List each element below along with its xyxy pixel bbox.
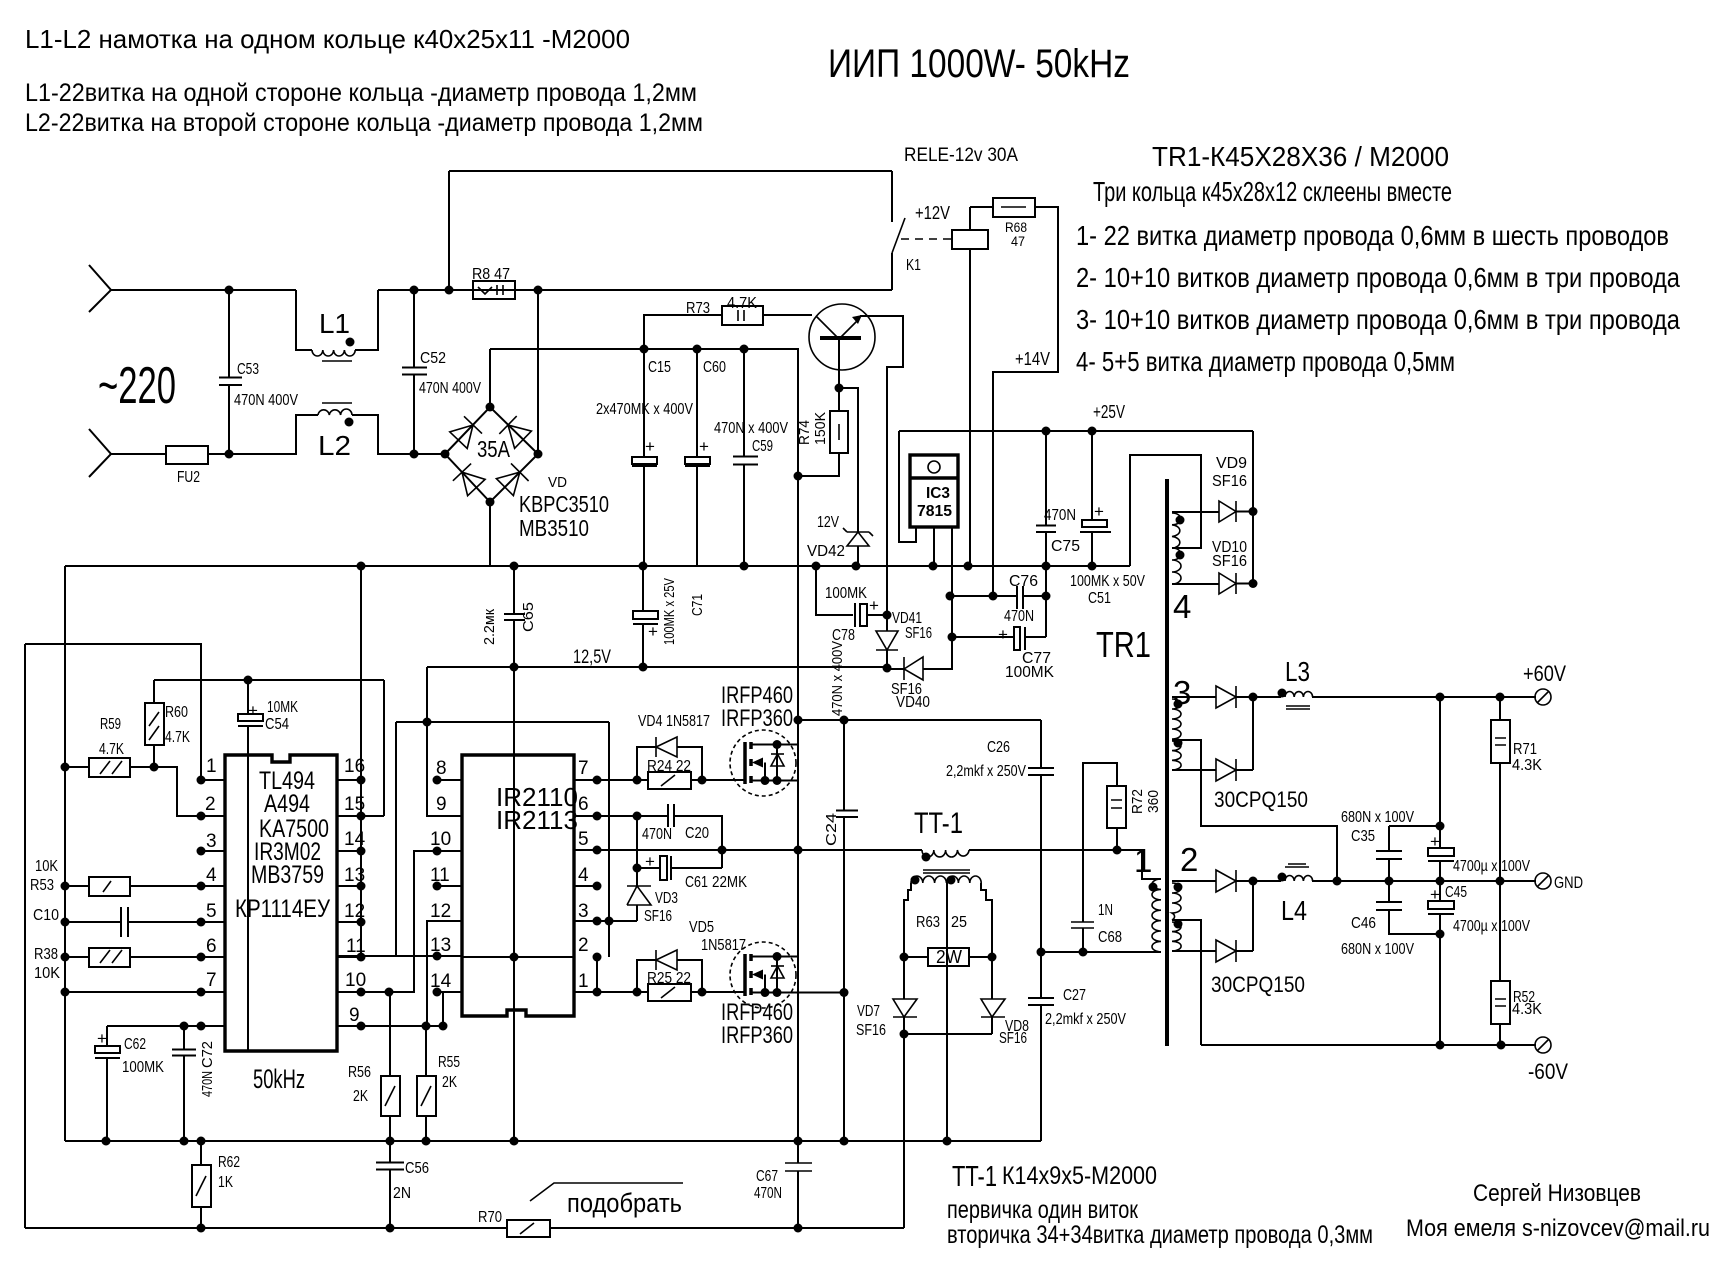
svg-text:R73: R73 bbox=[686, 300, 710, 317]
wire pin3 VCC row bbox=[574, 722, 637, 957]
wire GND rail dots bbox=[1333, 877, 1342, 886]
svg-text:2K: 2K bbox=[442, 1074, 457, 1091]
svg-text:7815: 7815 bbox=[917, 503, 952, 520]
wire +60V rail dots bbox=[1436, 693, 1445, 702]
svg-text:10: 10 bbox=[430, 829, 451, 850]
resistor R70 bbox=[507, 1220, 550, 1237]
svg-text:+: + bbox=[645, 852, 655, 871]
capacitor C45 lower bbox=[1439, 881, 1441, 934]
svg-text:30CPQ150: 30CPQ150 bbox=[1211, 972, 1305, 997]
svg-text:C51: C51 bbox=[1088, 590, 1111, 607]
capacitor C71 bbox=[642, 566, 644, 667]
svg-text:1K: 1K bbox=[218, 1174, 233, 1191]
diode VD9 bbox=[1219, 501, 1236, 522]
resistor R55 bbox=[425, 1026, 427, 1141]
capacitor C75 bbox=[1036, 431, 1056, 596]
resistor R25 bbox=[648, 984, 691, 1001]
resistor R68 bbox=[993, 198, 1035, 217]
svg-text:C76: C76 bbox=[1009, 573, 1038, 590]
capacitor C56 bbox=[376, 1141, 404, 1228]
svg-text:SF16: SF16 bbox=[905, 625, 932, 642]
capacitor C15 bbox=[643, 349, 645, 566]
svg-text:+: + bbox=[699, 437, 709, 456]
node input-arrow-top bbox=[89, 265, 111, 312]
svg-text:C59: C59 bbox=[752, 438, 773, 455]
svg-text:A494: A494 bbox=[264, 790, 310, 818]
svg-text:+: + bbox=[1430, 885, 1440, 904]
wire pin1 pin2 stubs bbox=[201, 780, 225, 851]
svg-text:+: + bbox=[645, 437, 655, 456]
svg-text:4.3K: 4.3K bbox=[1512, 757, 1542, 774]
svg-text:2,2mkf x 250V: 2,2mkf x 250V bbox=[1045, 1011, 1126, 1028]
svg-text:C72: C72 bbox=[199, 1041, 216, 1068]
svg-text:2x470MK x 400V: 2x470MK x 400V bbox=[596, 401, 693, 418]
svg-text:470N 400V: 470N 400V bbox=[234, 392, 298, 409]
wire pin12 row LIN bbox=[427, 921, 462, 1026]
svg-text:R53: R53 bbox=[30, 877, 54, 894]
svg-text:30CPQ150: 30CPQ150 bbox=[1214, 787, 1308, 812]
svg-text:КР1114ЕУ: КР1114ЕУ bbox=[235, 895, 330, 923]
svg-text:C67: C67 bbox=[756, 1168, 778, 1185]
OUTPUT bbox=[1201, 661, 1583, 1084]
wire 12.5V drop to VDD bbox=[396, 667, 609, 816]
resistor R53 pin4 bbox=[65, 885, 225, 887]
svg-text:3: 3 bbox=[578, 901, 589, 922]
svg-text:4.7K: 4.7K bbox=[165, 729, 190, 746]
wire 25V from rectifier bbox=[1252, 431, 1254, 584]
svg-text:TT-1: TT-1 bbox=[952, 1161, 997, 1193]
diode VD40 bbox=[923, 637, 952, 669]
capacitor C60 bbox=[696, 349, 698, 566]
svg-text:-60V: -60V bbox=[1528, 1059, 1568, 1084]
wire pin8 row bbox=[107, 1025, 225, 1027]
svg-text:1: 1 bbox=[1134, 842, 1152, 879]
capacitor C59 bbox=[733, 349, 758, 566]
svg-text:C15: C15 bbox=[648, 359, 671, 376]
RAIL125 bbox=[427, 566, 887, 672]
wire primary bottom bbox=[1041, 850, 1158, 952]
callout подобрать bbox=[530, 1183, 683, 1201]
capacitor C45 upper bbox=[1439, 697, 1441, 881]
svg-text:Моя емеля s-nizovcev@mail.ru: Моя емеля s-nizovcev@mail.ru bbox=[1406, 1215, 1710, 1242]
resistor R56 bbox=[389, 992, 391, 1141]
wire relay coil feed bbox=[970, 207, 993, 566]
svg-text:вторичка 34+34витка диаметр пр: вторичка 34+34витка диаметр провода 0,3м… bbox=[947, 1221, 1373, 1249]
svg-text:680N x 100V: 680N x 100V bbox=[1341, 941, 1414, 958]
wire midpoint dot bbox=[794, 716, 803, 725]
svg-text:L1: L1 bbox=[319, 308, 350, 339]
svg-text:4: 4 bbox=[578, 865, 589, 886]
svg-text:R72: R72 bbox=[1129, 789, 1146, 814]
svg-text:150K: 150K bbox=[812, 412, 829, 445]
svg-text:22MK: 22MK bbox=[712, 874, 747, 891]
svg-text:470N: 470N bbox=[1004, 608, 1034, 625]
resistor R72 bbox=[1083, 763, 1117, 952]
resistor R62 bbox=[200, 1141, 202, 1228]
wire bridge plus bbox=[490, 290, 538, 566]
wire pin11 stub bbox=[437, 885, 462, 887]
svg-text:470N: 470N bbox=[754, 1185, 782, 1202]
svg-text:C35: C35 bbox=[1351, 828, 1375, 845]
svg-text:VD4 1N5817: VD4 1N5817 bbox=[638, 713, 710, 730]
capacitor C68 bbox=[1071, 922, 1094, 928]
svg-text:10MK: 10MK bbox=[267, 699, 298, 716]
svg-text:C46: C46 bbox=[1351, 915, 1376, 932]
svg-text:VD3: VD3 bbox=[655, 890, 678, 907]
svg-text:2W: 2W bbox=[936, 947, 962, 967]
capacitor C76 bbox=[1017, 586, 1023, 609]
svg-text:14: 14 bbox=[430, 971, 452, 992]
capacitor C61 bbox=[637, 867, 722, 869]
capacitor C65 bbox=[504, 566, 525, 667]
svg-text:R70: R70 bbox=[478, 1209, 502, 1226]
wire pin8 stub bbox=[437, 779, 462, 781]
wire relay top link bbox=[449, 171, 892, 290]
svg-text:C52: C52 bbox=[420, 350, 446, 367]
diode 30CPQ150 c bbox=[1216, 870, 1236, 892]
svg-text:VD40: VD40 bbox=[896, 694, 930, 711]
wire -60V rail bbox=[1201, 1044, 1536, 1046]
svg-text:5: 5 bbox=[206, 901, 217, 922]
svg-text:+14V: +14V bbox=[1015, 349, 1050, 369]
svg-text:C65: C65 bbox=[520, 602, 537, 632]
resistor R52 bbox=[1499, 881, 1501, 1045]
svg-text:Сергей Низовцев: Сергей Низовцев bbox=[1473, 1180, 1641, 1207]
svg-text:R56: R56 bbox=[348, 1064, 371, 1081]
wire pin11 row to IR2110 pin13 bbox=[337, 722, 462, 956]
svg-text:4- 5+5 витка диаметр провода 0: 4- 5+5 витка диаметр провода 0,5мм bbox=[1076, 346, 1455, 377]
svg-text:R62: R62 bbox=[218, 1154, 240, 1171]
wire 12.5V rail bbox=[427, 666, 887, 668]
wire pin4 stub bbox=[574, 885, 597, 887]
wire L2 lower AC line bbox=[229, 415, 445, 454]
svg-text:VD42: VD42 bbox=[807, 543, 845, 560]
winding 1 primary bbox=[1152, 879, 1161, 952]
svg-text:7: 7 bbox=[578, 758, 589, 779]
capacitor C52 bbox=[402, 290, 427, 454]
svg-text:5: 5 bbox=[578, 829, 589, 850]
diode 30CPQ150 b bbox=[1216, 759, 1236, 781]
switch K1 bbox=[892, 218, 905, 253]
svg-text:470N x 400V: 470N x 400V bbox=[714, 420, 788, 437]
wire pin5 VS midpoint row bbox=[574, 849, 918, 851]
svg-text:R25 22: R25 22 bbox=[647, 970, 691, 987]
svg-text:IRFP360: IRFP360 bbox=[721, 1022, 793, 1049]
svg-text:FU2: FU2 bbox=[177, 469, 200, 486]
svg-text:100MK x 25V: 100MK x 25V bbox=[661, 578, 678, 645]
svg-text:360: 360 bbox=[1145, 790, 1162, 813]
wire R68 right to +14V bbox=[993, 207, 1058, 596]
HVRAIL bbox=[490, 295, 903, 1228]
svg-text:SF16: SF16 bbox=[644, 908, 672, 925]
svg-text:RELE-12v 30A: RELE-12v 30A bbox=[904, 145, 1018, 166]
svg-text:первичка один виток: первичка один виток bbox=[947, 1196, 1139, 1224]
svg-text:VD9: VD9 bbox=[1216, 455, 1247, 472]
zener VD42 bbox=[839, 388, 858, 566]
wire 14V node bbox=[950, 596, 1046, 637]
transformer TR1 core bbox=[1165, 479, 1169, 1046]
svg-text:R59: R59 bbox=[100, 716, 121, 733]
wire pin10 row bbox=[337, 851, 462, 992]
svg-text:ИИП 1000W- 50kHz: ИИП 1000W- 50kHz bbox=[828, 42, 1130, 86]
capacitor C35 bbox=[1376, 826, 1440, 881]
resistor R38 pin6 bbox=[65, 956, 225, 958]
svg-text:6: 6 bbox=[206, 936, 217, 957]
svg-text:MB3759: MB3759 bbox=[251, 861, 324, 889]
resistor R24 bbox=[648, 772, 691, 789]
AUXSUPPLY bbox=[816, 402, 1253, 711]
wire +25V rail bbox=[899, 430, 1253, 432]
svg-text:R38: R38 bbox=[34, 946, 58, 963]
capacitor C24 bbox=[798, 720, 858, 1141]
wire C24 gnd join bbox=[840, 988, 849, 997]
diode VD7 bbox=[903, 957, 905, 1034]
svg-text:R63: R63 bbox=[916, 914, 940, 931]
diode VD41 bbox=[886, 615, 888, 668]
capacitor C20 bbox=[668, 804, 674, 827]
svg-text:2N: 2N bbox=[393, 1185, 411, 1202]
TL494 bbox=[25, 566, 609, 1228]
svg-text:C10: C10 bbox=[33, 907, 59, 924]
terminal +60V bbox=[1535, 689, 1551, 705]
svg-text:VD: VD bbox=[548, 474, 567, 491]
transistor Q1 regulator bbox=[809, 304, 875, 370]
wire top AC line bbox=[111, 289, 892, 291]
capacitor C62 bbox=[106, 1026, 108, 1141]
svg-text:4.7K: 4.7K bbox=[727, 295, 757, 312]
wire pin7 bbox=[65, 991, 225, 993]
regulator IC3 7815 bbox=[899, 431, 952, 669]
svg-text:IRFP360: IRFP360 bbox=[721, 705, 793, 732]
capacitor C26 bbox=[1028, 720, 1054, 952]
svg-text:KBPC3510: KBPC3510 bbox=[519, 491, 609, 517]
relay coil K1 bbox=[901, 238, 951, 240]
capacitor C72 bbox=[172, 1026, 196, 1141]
diode VD5 bbox=[637, 960, 702, 992]
GNDRAIL566 bbox=[65, 562, 1130, 571]
svg-text:2,2mkf x 250V: 2,2mkf x 250V bbox=[946, 763, 1026, 780]
wire VD7 VD8 bottom bbox=[904, 1034, 992, 1228]
BOTTOMRAILS bbox=[25, 1137, 1041, 1238]
diode 30CPQ150 a bbox=[1216, 686, 1236, 708]
svg-text:2- 10+10 витков диаметр провод: 2- 10+10 витков диаметр провода 0,6мм в … bbox=[1076, 262, 1680, 293]
resistor R73 bbox=[644, 315, 812, 349]
svg-text:L4: L4 bbox=[1281, 895, 1307, 926]
capacitor C10 pin5 bbox=[65, 907, 225, 937]
wire pin1 LO row bbox=[574, 957, 744, 992]
INPUTSECTION bbox=[89, 265, 892, 566]
svg-text:6: 6 bbox=[578, 794, 589, 815]
svg-text:470N: 470N bbox=[1044, 507, 1076, 524]
svg-text:VD7: VD7 bbox=[857, 1003, 880, 1020]
RELAY bbox=[449, 145, 1058, 596]
svg-text:подобрать: подобрать bbox=[567, 1188, 682, 1218]
svg-text:C24: C24 bbox=[823, 813, 840, 846]
IR2110 bbox=[430, 667, 918, 1141]
svg-text:R24 22: R24 22 bbox=[647, 758, 691, 775]
svg-text:C27: C27 bbox=[1063, 987, 1086, 1004]
svg-text:+: + bbox=[869, 596, 879, 615]
svg-text:+: + bbox=[97, 1029, 107, 1048]
svg-text:C20: C20 bbox=[685, 825, 709, 842]
svg-text:SF16: SF16 bbox=[1212, 473, 1247, 490]
svg-text:4700µ x 100V: 4700µ x 100V bbox=[1453, 918, 1530, 935]
svg-text:R71: R71 bbox=[1513, 741, 1537, 758]
svg-text:25: 25 bbox=[951, 914, 967, 931]
svg-text:MB3510: MB3510 bbox=[519, 515, 589, 541]
svg-text:L2-22витка на второй стороне к: L2-22витка на второй стороне кольца -диа… bbox=[25, 109, 703, 137]
svg-text:470N 400V: 470N 400V bbox=[419, 380, 481, 397]
svg-text:SF16: SF16 bbox=[999, 1030, 1027, 1047]
svg-text:К14х9х5-М2000: К14х9х5-М2000 bbox=[1002, 1162, 1157, 1190]
wire VB drop bbox=[636, 816, 638, 868]
svg-text:1N: 1N bbox=[1098, 902, 1113, 919]
capacitor C67 bbox=[785, 1163, 812, 1171]
resistor R71 bbox=[1499, 697, 1501, 881]
diode VD3 bbox=[636, 868, 638, 921]
wire pin16 15 bus bbox=[337, 680, 384, 957]
svg-text:13: 13 bbox=[430, 935, 451, 956]
svg-text:IR2113: IR2113 bbox=[496, 805, 578, 835]
svg-text:50kHz: 50kHz bbox=[253, 1064, 305, 1094]
svg-text:R60: R60 bbox=[165, 704, 188, 721]
wire left bus x65 bbox=[64, 566, 66, 1141]
svg-text:L3: L3 bbox=[1285, 656, 1310, 687]
svg-text:1- 22 витка диаметр провода 0,: 1- 22 витка диаметр провода 0,6мм в шест… bbox=[1076, 220, 1669, 251]
svg-text:680N x 100V: 680N x 100V bbox=[1341, 809, 1414, 826]
svg-text:1: 1 bbox=[578, 971, 589, 992]
svg-text:R8 47: R8 47 bbox=[472, 266, 510, 283]
resistor R60 bbox=[153, 680, 155, 767]
bridge rectifier VD KBPC3510 bbox=[445, 407, 538, 502]
wire vref top link bbox=[154, 566, 384, 956]
wire +310V rail bbox=[490, 349, 798, 1228]
svg-text:TT-1: TT-1 bbox=[914, 807, 963, 840]
svg-text:+25V: +25V bbox=[1093, 402, 1125, 422]
svg-text:R55: R55 bbox=[438, 1054, 460, 1071]
wire pin9 row bbox=[337, 992, 462, 1026]
svg-text:2: 2 bbox=[1180, 841, 1198, 878]
svg-text:C26: C26 bbox=[987, 739, 1010, 756]
svg-text:4.3K: 4.3K bbox=[1512, 1001, 1542, 1018]
svg-text:TR1: TR1 bbox=[1096, 624, 1151, 665]
svg-text:2K: 2K bbox=[353, 1088, 368, 1105]
wire primary gnd rail bbox=[65, 565, 1130, 567]
diode VD8 bbox=[991, 957, 993, 1034]
wire gnd rail 1141 bbox=[65, 1140, 1041, 1142]
svg-text:+12V: +12V bbox=[915, 203, 950, 223]
svg-text:470N: 470N bbox=[642, 826, 672, 843]
svg-text:R74: R74 bbox=[796, 420, 813, 445]
svg-text:100MK: 100MK bbox=[1005, 664, 1054, 681]
svg-text:K1: K1 bbox=[906, 257, 921, 274]
svg-text:VD5: VD5 bbox=[689, 919, 714, 936]
wire pin7 HO row bbox=[574, 779, 744, 781]
svg-text:+: + bbox=[998, 625, 1008, 644]
svg-text:3: 3 bbox=[206, 831, 217, 852]
svg-text:3- 10+10 витков диаметр провод: 3- 10+10 витков диаметр провода 0,6мм в … bbox=[1076, 304, 1680, 335]
svg-text:C71: C71 bbox=[689, 594, 706, 616]
diode 30CPQ150 d bbox=[1216, 940, 1236, 962]
diode VD10 bbox=[1219, 573, 1236, 594]
svg-text:4700µ x 100V: 4700µ x 100V bbox=[1453, 858, 1530, 875]
wire C65 line through box bbox=[513, 667, 515, 1141]
svg-text:C61: C61 bbox=[685, 874, 708, 891]
svg-text:C54: C54 bbox=[265, 716, 289, 733]
svg-text:TR1-К45Х28Х36 / М2000: TR1-К45Х28Х36 / М2000 bbox=[1152, 141, 1449, 172]
ic IR2110 box bbox=[462, 755, 574, 1016]
svg-text:SF16: SF16 bbox=[856, 1022, 886, 1039]
TR1 bbox=[1096, 431, 1536, 1046]
svg-text:100MK: 100MK bbox=[122, 1059, 164, 1076]
resistor R8 bbox=[473, 281, 515, 299]
wire 310V to C26 bbox=[844, 719, 1041, 721]
svg-text:L1-22витка на одной стороне к: L1-22витка на одной стороне кольца -диам… bbox=[25, 79, 697, 107]
capacitor C78 bbox=[816, 566, 887, 615]
junction dots input bbox=[225, 286, 234, 295]
wire pin13 vss line through box bbox=[462, 956, 574, 958]
svg-text:+: + bbox=[248, 701, 258, 720]
ic TL494 box bbox=[225, 755, 337, 1051]
svg-text:4: 4 bbox=[206, 865, 217, 886]
terminal -60V bbox=[1535, 1037, 1551, 1053]
resistor R74 bbox=[798, 388, 839, 476]
PRIMARYLOOP bbox=[844, 720, 1162, 1228]
svg-text:100MK: 100MK bbox=[825, 585, 867, 602]
svg-text:C62: C62 bbox=[124, 1036, 146, 1053]
svg-text:L2: L2 bbox=[318, 430, 351, 461]
svg-text:7: 7 bbox=[206, 970, 217, 991]
svg-text:IC3: IC3 bbox=[926, 485, 950, 502]
svg-text:1: 1 bbox=[206, 756, 217, 777]
resistor R59 bbox=[65, 767, 201, 816]
MOSFETS bbox=[721, 641, 858, 1141]
svg-text:L1-L2 намотка на одном кольце: L1-L2 намотка на одном кольце к40х25х11 … bbox=[25, 24, 630, 54]
svg-text:C56: C56 bbox=[405, 1160, 429, 1177]
diode VD4 bbox=[637, 747, 702, 780]
svg-text:10K: 10K bbox=[34, 965, 60, 982]
svg-text:~220: ~220 bbox=[98, 357, 176, 415]
svg-text:470N x 400V: 470N x 400V bbox=[829, 641, 846, 716]
svg-text:10K: 10K bbox=[35, 858, 58, 875]
wire emitter to VD41 chain bbox=[860, 316, 903, 615]
svg-text:C60: C60 bbox=[703, 359, 726, 376]
svg-text:4: 4 bbox=[1173, 588, 1191, 625]
svg-text:Три кольца к45х28х12 склеены в: Три кольца к45х28х12 склеены вместе bbox=[1093, 176, 1452, 207]
svg-text:9: 9 bbox=[436, 794, 447, 815]
svg-text:+: + bbox=[1094, 502, 1104, 521]
svg-text:100MK x 50V: 100MK x 50V bbox=[1070, 573, 1145, 590]
svg-text:2: 2 bbox=[205, 794, 216, 815]
svg-text:470N: 470N bbox=[199, 1071, 216, 1097]
capacitor C51 bbox=[1091, 431, 1093, 566]
svg-text:35A: 35A bbox=[477, 436, 511, 462]
svg-text:12V: 12V bbox=[817, 514, 839, 531]
node input-arrow-bottom bbox=[89, 429, 111, 477]
capacitor C53 bbox=[219, 290, 242, 454]
svg-text:12,5V: 12,5V bbox=[573, 647, 611, 668]
svg-text:47: 47 bbox=[1011, 233, 1025, 249]
transformer TT-1 secondary bbox=[911, 876, 981, 883]
svg-text:SF16: SF16 bbox=[1212, 553, 1247, 570]
svg-text:2: 2 bbox=[578, 935, 589, 956]
svg-text:C68: C68 bbox=[1098, 929, 1122, 946]
svg-text:C53: C53 bbox=[237, 361, 259, 378]
wire pin6 VB row bbox=[574, 816, 722, 868]
capacitor C77 bbox=[952, 636, 1046, 638]
wire left bus x25 feedback bbox=[25, 644, 201, 1228]
svg-text:+: + bbox=[1430, 832, 1440, 851]
